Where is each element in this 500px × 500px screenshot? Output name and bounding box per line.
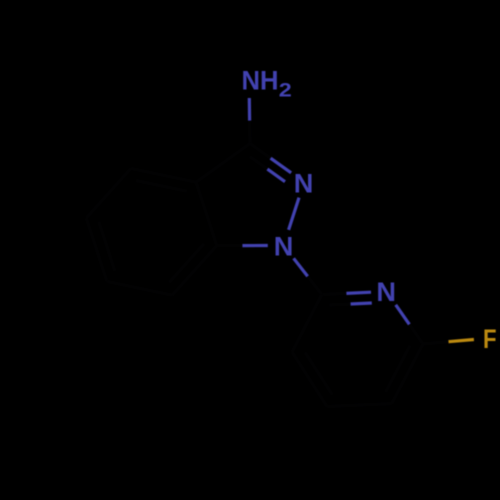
bond C7=C7a (double)	[172, 246, 217, 296]
bond C5=C6 (double)	[86, 218, 107, 281]
bond N1-C7a	[242, 244, 267, 247]
bond C6-F	[423, 342, 449, 344]
bond C6-C7	[107, 281, 172, 295]
svg-text:N: N	[274, 230, 294, 261]
bond C4-C5	[86, 168, 131, 218]
bond C3=N2 (double)	[250, 144, 271, 159]
bond C7a-C3a	[196, 182, 217, 245]
bond C2=N pyridine (double)	[322, 293, 347, 294]
svg-text:2: 2	[279, 80, 292, 101]
bond C3a-C3	[196, 144, 250, 183]
svg-text:F: F	[483, 323, 497, 354]
bond C3=C4 pyridine (double)	[292, 352, 327, 407]
svg-text:N: N	[376, 276, 396, 307]
bond N1-C2 pyridine	[294, 258, 308, 276]
svg-text:N: N	[294, 168, 314, 199]
svg-text:NH: NH	[242, 66, 279, 96]
bond C4-C5 pyridine	[327, 404, 392, 407]
bond N-C6 pyridine	[396, 305, 410, 325]
bond N2-N1	[289, 198, 299, 230]
bond C2-C3 pyridine	[292, 295, 322, 353]
bond C3a=C4 (double)	[131, 168, 196, 182]
bond C5=C6 pyridine (double)	[392, 344, 423, 404]
bond NH2-C3	[248, 98, 252, 121]
